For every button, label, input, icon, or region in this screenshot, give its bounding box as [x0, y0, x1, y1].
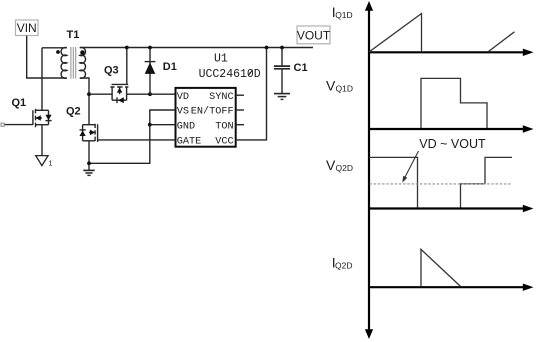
- channel segments: [94, 124, 96, 141]
- node VCC on rail: [265, 46, 269, 50]
- axis I_Q2D: [369, 284, 534, 291]
- gate bar: [32, 110, 34, 125]
- wire top rail to VOUT: [80, 47, 313, 49]
- svg-text:VOUT: VOUT: [297, 29, 331, 43]
- gate lead: [4, 124, 33, 126]
- source stem: [88, 141, 90, 171]
- svg-text:GATE: GATE: [177, 137, 201, 148]
- gate bar: [112, 83, 129, 85]
- svg-text:Q3: Q3: [104, 65, 119, 77]
- label V_Q1D: [326, 77, 353, 93]
- gate bar: [97, 124, 99, 142]
- waveform I_Q1D: [369, 14, 515, 53]
- port VIN: [16, 20, 39, 36]
- svg-text:SYNC: SYNC: [209, 92, 233, 103]
- channel segments: [35, 109, 37, 128]
- svg-text:VCC: VCC: [215, 137, 233, 148]
- body tap arrow: [89, 131, 95, 133]
- primary winding: [61, 47, 67, 78]
- wire GND: [150, 124, 176, 126]
- body diode: [45, 115, 51, 120]
- svg-text:V: V: [326, 157, 336, 173]
- body tap arrow: [36, 117, 43, 119]
- drain lead: [127, 93, 150, 95]
- diode triangle: [145, 62, 156, 74]
- waveform I_Q2D: [421, 249, 461, 286]
- svg-text:V: V: [326, 77, 336, 93]
- pin stub SYNC: [236, 94, 244, 96]
- svg-text:EN/TOFF: EN/TOFF: [191, 106, 234, 118]
- core: [71, 47, 76, 79]
- svg-text:Q1D: Q1D: [335, 10, 352, 20]
- label I_Q1D: [332, 4, 353, 20]
- drain bar: [83, 124, 96, 126]
- dashed level VD~VOUT: [370, 183, 512, 185]
- waveform vertical axis: [365, 1, 373, 339]
- svg-text:Q2: Q2: [66, 106, 81, 118]
- source stem: [41, 125, 43, 156]
- pin stub TON: [236, 124, 244, 126]
- svg-text:D1: D1: [163, 61, 177, 73]
- svg-text:VIN: VIN: [17, 21, 37, 35]
- svg-text:1: 1: [48, 159, 52, 168]
- svg-text:VD: VD: [177, 92, 189, 103]
- label I_Q2D: [332, 254, 353, 270]
- wire VS/GND to Q2 source: [89, 125, 150, 164]
- svg-text:TON: TON: [215, 121, 233, 132]
- svg-text:VD ~ VOUT: VD ~ VOUT: [419, 137, 486, 151]
- axis V_Q1D: [369, 125, 534, 132]
- transistor Q3: [89, 46, 150, 104]
- svg-text:Q1: Q1: [12, 97, 27, 109]
- node Q3 source / Q2 drain junction: [87, 92, 91, 96]
- source side bar: [111, 87, 113, 100]
- svg-text:Q2D: Q2D: [335, 260, 352, 270]
- body diode: [80, 130, 86, 136]
- node Q2 source: [87, 161, 91, 165]
- annotation VD ~ VOUT: [402, 137, 486, 182]
- node VS/GND junction: [148, 123, 152, 127]
- secondary winding: [80, 47, 86, 78]
- wire GATE to Q2 gate: [98, 139, 176, 141]
- axis I_Q1D: [369, 49, 534, 56]
- body diode rail: [48, 110, 50, 124]
- primary dot: [56, 50, 60, 54]
- waveform V_Q1D: [421, 78, 487, 128]
- ground under C1: [274, 94, 290, 100]
- waveform V_Q2D: [369, 157, 512, 207]
- anode/cathode wire: [149, 48, 151, 95]
- IC U1 UCC24610D: [176, 53, 261, 148]
- body diode rail: [112, 99, 127, 101]
- transistor Q2: [66, 106, 98, 171]
- port gate input: [1, 123, 4, 126]
- svg-text:VS: VS: [177, 107, 189, 118]
- svg-text:GND: GND: [177, 121, 195, 132]
- wire VS: [150, 110, 176, 125]
- transformer T1: [56, 29, 85, 79]
- label V_Q2D: [326, 157, 353, 173]
- ground 1 (triangle): [36, 156, 53, 168]
- ground under Q2: [83, 170, 94, 175]
- pin stub EN/TOFF: [236, 109, 244, 111]
- svg-text:C1: C1: [294, 62, 308, 74]
- node VD junction: [148, 92, 152, 96]
- gate wire from top rail: [126, 48, 128, 85]
- source lead: [89, 93, 112, 95]
- wire VCC to top rail: [236, 48, 267, 140]
- body tap arrow: [119, 87, 121, 94]
- svg-text:T1: T1: [67, 29, 80, 41]
- svg-text:Q2D: Q2D: [336, 163, 353, 173]
- diode D1: [145, 46, 177, 97]
- node on rail: [125, 46, 129, 50]
- port VOUT: [297, 26, 331, 44]
- channel segments: [110, 86, 128, 88]
- node on rail: [148, 46, 152, 50]
- secondary dot: [80, 50, 84, 54]
- transistor Q1: [4, 97, 51, 155]
- body diode: [118, 97, 124, 103]
- drain bar: [36, 109, 49, 111]
- svg-text:U1: U1: [214, 53, 228, 66]
- wire primary top / Q1 drain: [42, 48, 67, 111]
- wire VD to U1: [150, 93, 176, 95]
- source bar: [36, 124, 49, 126]
- drain side bar: [126, 87, 128, 100]
- svg-text:Q1D: Q1D: [336, 83, 353, 93]
- body diode rail: [82, 125, 84, 141]
- source bar: [83, 140, 96, 142]
- wire VIN to primary bottom: [27, 36, 67, 78]
- axis V_Q2D: [369, 205, 534, 212]
- capacitor C1: [274, 46, 308, 94]
- wire secondary bottom to Q2 drain: [80, 78, 89, 125]
- cathode bar: [145, 61, 156, 63]
- svg-text:UCC24610D: UCC24610D: [199, 68, 261, 81]
